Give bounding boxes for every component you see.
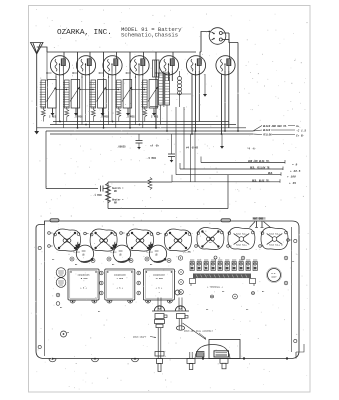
svg-text:A+: A+: [295, 125, 300, 128]
svg-text:.5 MEG: .5 MEG: [100, 116, 109, 119]
svg-text:.5 MFD: .5 MFD: [147, 157, 157, 160]
svg-text:DRUM SHAFT: DRUM SHAFT: [133, 336, 147, 339]
svg-text:PUSH PULL: PUSH PULL: [269, 244, 281, 247]
svg-text:2 MEG: 2 MEG: [151, 116, 159, 119]
svg-text:-C 1.5: -C 1.5: [296, 130, 306, 133]
svg-text:YL-2: YL-2: [208, 236, 214, 239]
svg-text:ANT GND: ANT GND: [253, 218, 264, 221]
svg-text:.5 MFD: .5 MFD: [80, 277, 89, 280]
svg-text:2 MEG: 2 MEG: [49, 116, 57, 119]
svg-text:GRN AND BLUE TR.: GRN AND BLUE TR.: [248, 160, 270, 163]
svg-text:OZARKA, INC.: OZARKA, INC.: [57, 29, 112, 37]
svg-text:.5 MFD: .5 MFD: [155, 277, 164, 280]
svg-text:BLACK AND RED TR.: BLACK AND RED TR.: [263, 125, 287, 128]
svg-text:*4 -A-: *4 -A-: [247, 148, 257, 151]
svg-text:+ 22.5: + 22.5: [290, 170, 301, 173]
svg-text:+ R +: + R +: [80, 287, 87, 290]
svg-text:UNIT: UNIT: [271, 276, 277, 279]
svg-text:= 9: = 9: [292, 164, 297, 167]
svg-text:PUSH PULL: PUSH PULL: [236, 233, 248, 236]
svg-text:.5 MEG: .5 MEG: [74, 116, 83, 119]
svg-text:PUSH PULL: PUSH PULL: [269, 233, 281, 236]
svg-text:+ 100: + 100: [287, 175, 296, 178]
svg-text:+ R +: + R +: [117, 287, 124, 290]
svg-text:#4 -B-45: #4 -B-45: [186, 147, 199, 150]
svg-text:.00025: .00025: [117, 146, 126, 149]
svg-text:.1 MFD: .1 MFD: [93, 194, 102, 197]
svg-text:PUSH PULL: PUSH PULL: [236, 244, 248, 247]
svg-text:RED.: RED.: [268, 172, 274, 175]
svg-text:DRUM AND DIAL ASSEMBLY: DRUM AND DIAL ASSEMBLY: [184, 330, 214, 333]
svg-text:+ R +: + R +: [156, 287, 163, 290]
svg-text:YELLOW: YELLOW: [263, 134, 272, 137]
svg-text:+A -B+: +A -B+: [150, 145, 160, 148]
svg-text:RED, YELLOW TR.: RED, YELLOW TR.: [250, 167, 271, 170]
svg-text:+ TERMINAL +: + TERMINAL +: [207, 286, 223, 289]
svg-text:+ 45: + 45: [289, 182, 296, 185]
svg-text:C+ B-: C+ B-: [296, 135, 305, 138]
svg-text:BLACK: BLACK: [263, 129, 271, 132]
svg-text:.5 MEG: .5 MEG: [126, 116, 135, 119]
svg-text:1 MFD: 1 MFD: [117, 277, 124, 280]
svg-text:Schematic,Chassis: Schematic,Chassis: [121, 32, 178, 39]
svg-text:RED, BLUE TR.: RED, BLUE TR.: [252, 179, 270, 182]
